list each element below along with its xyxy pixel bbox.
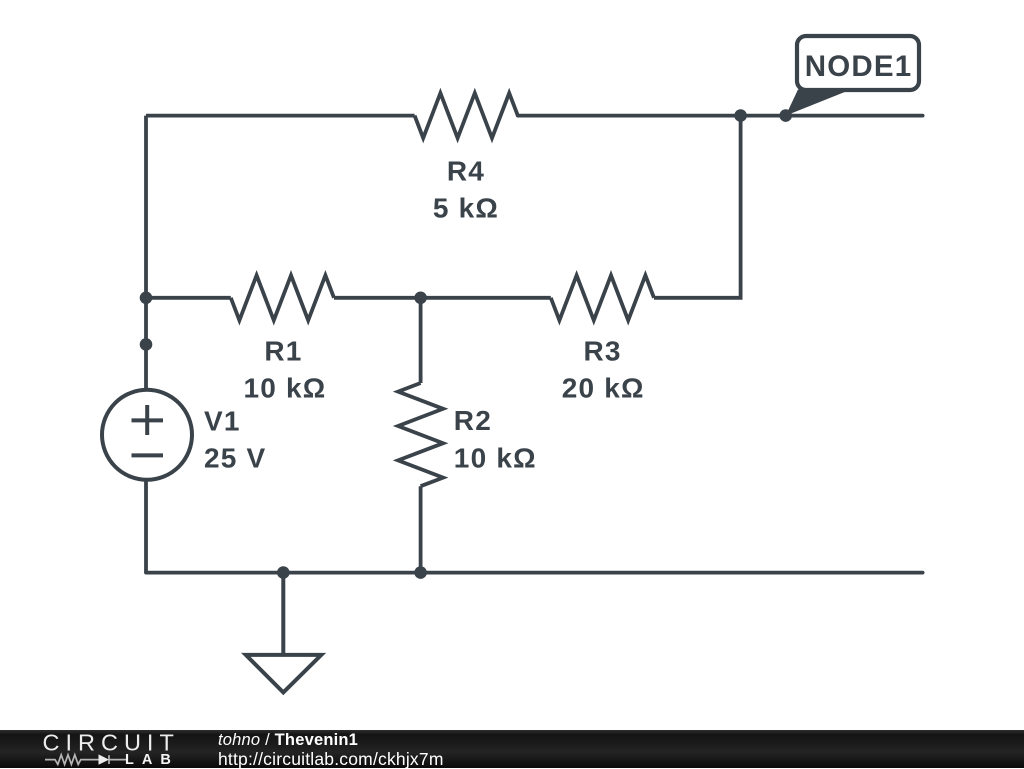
resistor R3 xyxy=(551,275,654,320)
svg-text:5 kΩ: 5 kΩ xyxy=(433,193,499,224)
wire R3 right lead and vertical to top xyxy=(654,116,741,298)
wire R1 left lead xyxy=(146,296,231,300)
wire V1 bottom lead xyxy=(144,481,148,573)
wire R1-to-R3 xyxy=(334,296,551,300)
wire R4-to-node xyxy=(518,114,923,118)
resistor R4 xyxy=(415,93,518,138)
node junction dot (R3 vertical at top wire) xyxy=(734,109,747,122)
resistor R2 xyxy=(398,383,443,486)
footer title text xyxy=(218,733,358,747)
svg-text:20 kΩ: 20 kΩ xyxy=(562,373,645,404)
node NODE1 callout pointer xyxy=(786,90,851,116)
node junction dot (ground) xyxy=(277,566,290,579)
svg-text:V1: V1 xyxy=(204,406,241,437)
node junction dot (R2 top) xyxy=(414,292,427,305)
svg-text:R3: R3 xyxy=(583,336,621,367)
node junction dot (R2 bottom) xyxy=(414,566,427,579)
node junction dot (NODE1 tap) xyxy=(779,109,792,122)
wire left vertical rail xyxy=(144,116,148,388)
svg-text:NODE1: NODE1 xyxy=(805,50,913,83)
wire R2 bottom lead xyxy=(419,486,423,572)
footer url text xyxy=(218,752,444,767)
wire top left-to-R4 xyxy=(146,114,415,118)
node junction dot (left rail joint) xyxy=(140,338,153,351)
voltage source V1 xyxy=(102,390,192,480)
node NODE1 label box xyxy=(797,36,919,90)
ground xyxy=(246,573,321,693)
svg-text:R1: R1 xyxy=(264,336,302,367)
resistor R1 xyxy=(231,275,334,320)
footer bar xyxy=(0,730,1024,768)
svg-text:R4: R4 xyxy=(447,156,485,187)
svg-text:10 kΩ: 10 kΩ xyxy=(244,373,327,404)
node junction dot (left, R1 branch) xyxy=(140,292,153,305)
svg-text:R2: R2 xyxy=(454,405,492,436)
CircuitLab logo xyxy=(0,730,220,768)
svg-text:LAB: LAB xyxy=(125,752,179,768)
svg-text:10 kΩ: 10 kΩ xyxy=(454,443,537,474)
svg-text:25 V: 25 V xyxy=(204,443,266,474)
wire R2 top lead xyxy=(419,298,423,383)
wire bottom rail xyxy=(146,571,923,575)
